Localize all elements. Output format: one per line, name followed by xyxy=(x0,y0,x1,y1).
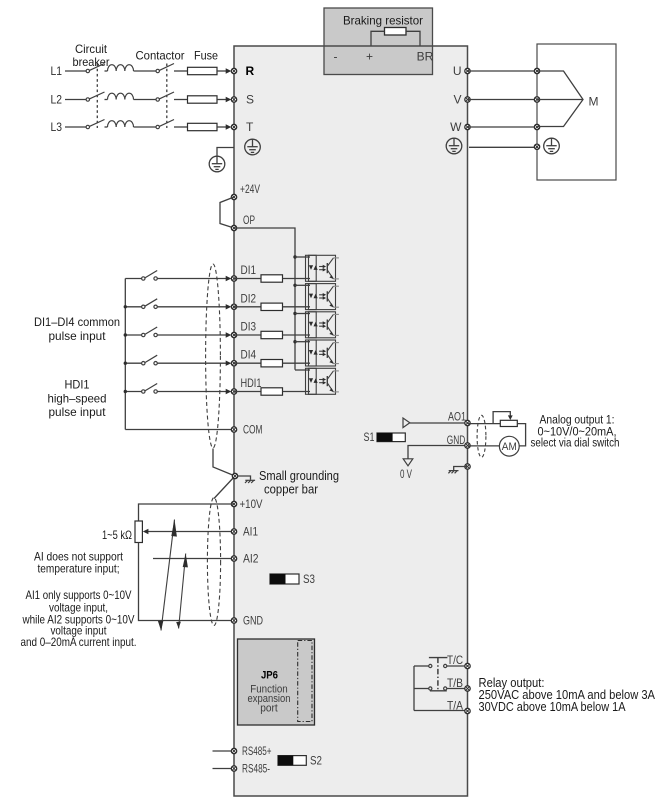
wire fuse to terminal S xyxy=(217,99,226,101)
svg-text:DI4: DI4 xyxy=(241,348,257,362)
protective earth symbol inside inverter left xyxy=(245,139,261,155)
contactor coil L3 xyxy=(108,121,134,127)
contactor contact L1 xyxy=(156,64,174,73)
terminal RS485- xyxy=(231,766,236,771)
terminal COM xyxy=(231,427,236,432)
shield ellipse digital inputs xyxy=(206,264,221,448)
svg-text:L2: L2 xyxy=(51,93,63,107)
svg-text:30VDC above 10mA below 1A: 30VDC above 10mA below 1A xyxy=(479,700,627,714)
switch HDI1 xyxy=(142,384,158,394)
wire terminal DI4 to resistor xyxy=(234,362,261,364)
protective earth symbol motor xyxy=(544,138,560,154)
wire resistor DI4 to optocoupler xyxy=(283,362,311,364)
junction dot OP rail DI1 xyxy=(293,255,296,258)
wire potentiometer to meter xyxy=(517,424,525,446)
wire braking resistor to BR terminal xyxy=(406,31,420,45)
wire inverter to motor earth xyxy=(469,146,537,148)
terminal R xyxy=(231,68,236,73)
svg-text:DI1: DI1 xyxy=(241,263,257,277)
terminal chassis output xyxy=(465,464,470,469)
svg-text:AI1: AI1 xyxy=(243,525,258,539)
wire relay T/B left xyxy=(414,688,429,690)
svg-text:T/A: T/A xyxy=(447,698,463,712)
arrowhead into terminal DI4 xyxy=(226,361,232,366)
wire RS485+ stub xyxy=(213,750,235,752)
optocoupler DI3 xyxy=(306,312,339,338)
wire OP rail to optocoupler DI3 xyxy=(295,313,310,315)
wire switch DI1 to terminal xyxy=(157,278,226,280)
wire DI shield drain xyxy=(213,449,235,477)
wire fuse to terminal R xyxy=(217,70,226,72)
0V reference symbol xyxy=(403,459,413,466)
resistor DI4 xyxy=(261,360,283,367)
svg-text:W: W xyxy=(450,120,462,134)
wire V to motor xyxy=(468,99,538,101)
wire COM bus horizontal xyxy=(125,429,234,431)
wire inverter edge to input PE earth xyxy=(217,148,234,157)
contactor coil L1 xyxy=(108,65,134,71)
svg-text:AO1: AO1 xyxy=(448,410,466,424)
wire U to motor xyxy=(468,70,538,72)
wire resistor DI3 to optocoupler xyxy=(283,334,311,336)
junction dot bus DI3 xyxy=(124,333,127,336)
arrowhead into terminal DI3 xyxy=(226,332,232,337)
motor winding chevron xyxy=(537,71,583,127)
terminal W xyxy=(465,124,470,129)
svg-text:R: R xyxy=(246,64,255,78)
terminal +10V xyxy=(231,501,236,506)
svg-text:1~5 kΩ: 1~5 kΩ xyxy=(102,528,132,542)
wire RS485- stub xyxy=(213,768,235,770)
wire L3 to circuit breaker xyxy=(65,126,86,128)
wire resistor DI2 to optocoupler xyxy=(283,306,311,308)
wire switch DI3 to terminal xyxy=(157,334,226,336)
motor terminal W xyxy=(534,124,539,129)
braking resistor BR1 xyxy=(385,28,407,36)
junction dot OP rail DI4 xyxy=(293,340,296,343)
expansion port JP6 inner connector xyxy=(298,641,312,722)
svg-text:HDI1: HDI1 xyxy=(241,376,262,390)
terminal GND output xyxy=(465,443,470,448)
wire switch common bus vertical xyxy=(124,279,126,430)
svg-text:AM: AM xyxy=(502,441,517,453)
terminal S xyxy=(231,97,236,102)
protective earth symbol input side xyxy=(209,156,225,172)
svg-text:Braking resistor: Braking resistor xyxy=(343,14,423,28)
wire switch DI4 to terminal xyxy=(157,362,226,364)
wire braking resistor to + terminal xyxy=(371,31,385,45)
wire motor V phase xyxy=(537,99,583,101)
svg-text:high–speed: high–speed xyxy=(48,391,107,405)
svg-text:V: V xyxy=(453,93,461,107)
terminal DI4 xyxy=(231,361,236,366)
junction dot bus DI2 xyxy=(124,305,127,308)
terminal AO1 xyxy=(465,420,470,425)
wire switch DI2 to terminal xyxy=(157,306,226,308)
wire L2 to circuit breaker xyxy=(65,99,86,101)
wire bus to switch DI1 xyxy=(125,278,141,280)
twisted pair arrow AI2 xyxy=(176,554,188,629)
svg-text:S1: S1 xyxy=(364,430,375,444)
wire chassis terminal to symbol xyxy=(454,467,468,471)
arrowhead into terminal S xyxy=(226,97,232,102)
switch DI1 xyxy=(142,271,158,281)
fuse F2 xyxy=(188,96,218,103)
contactor coil L2 xyxy=(108,93,134,99)
svg-text:DI1–DI4 common: DI1–DI4 common xyxy=(34,315,120,329)
terminal AI2 xyxy=(231,556,236,561)
terminal GND analog xyxy=(231,618,236,623)
svg-text:S2: S2 xyxy=(310,754,322,768)
wire bus to switch DI4 xyxy=(125,362,141,364)
switch DI3 xyxy=(142,327,158,337)
wire bus to switch HDI1 xyxy=(125,391,141,393)
svg-text:GND: GND xyxy=(243,614,263,628)
svg-text:and 0–20mA current input.: and 0–20mA current input. xyxy=(21,635,137,649)
optocoupler DI1 xyxy=(306,255,339,281)
wire relay T/C left xyxy=(414,665,429,667)
wire OP rail to optocoupler DI1 xyxy=(295,256,310,258)
optocoupler DI2 xyxy=(306,284,339,310)
wire OP rail to optocoupler HDI1 xyxy=(295,369,310,371)
resistor DI3 xyxy=(261,331,283,338)
svg-text:Fuse: Fuse xyxy=(194,49,218,63)
chassis ground symbol grounding bar xyxy=(245,480,255,483)
svg-text:L3: L3 xyxy=(51,120,63,134)
svg-text:temperature input;: temperature input; xyxy=(38,562,120,576)
motor box xyxy=(537,44,616,180)
relay contact T/C xyxy=(429,658,448,668)
wire potentiometer loop xyxy=(493,412,510,424)
svg-text:S: S xyxy=(246,93,254,107)
terminal RS485+ xyxy=(231,748,236,753)
fuse F3 xyxy=(188,123,218,130)
svg-text:M: M xyxy=(589,95,599,109)
inverter main unit body xyxy=(234,46,468,796)
arrowhead into terminal DI1 xyxy=(226,276,232,281)
motor terminal V xyxy=(534,97,539,102)
terminal HDI1 xyxy=(231,389,236,394)
contactor contact L3 xyxy=(156,120,174,129)
motor terminal earth xyxy=(534,144,539,149)
wire potentiometer bottom to GND xyxy=(139,543,235,621)
inverter top edge across braking box xyxy=(324,45,433,47)
wire contact to fuse L3 xyxy=(174,126,188,128)
wire OP rail to optocoupler DI4 xyxy=(295,341,310,343)
svg-text:Small grounding: Small grounding xyxy=(259,469,339,483)
svg-text:S3: S3 xyxy=(303,572,315,586)
wire OP rail to optocoupler DI2 xyxy=(295,284,310,286)
svg-text:OP: OP xyxy=(243,213,255,227)
wire terminal HDI1 to resistor xyxy=(234,391,261,393)
terminal V xyxy=(465,97,470,102)
junction dot bus DI4 xyxy=(124,362,127,365)
wire coil to contactor contact L1 xyxy=(134,70,157,72)
wire terminal DI1 to resistor xyxy=(234,278,261,280)
switch DI4 xyxy=(142,355,158,365)
arrowhead potentiometer wiper xyxy=(143,529,149,534)
resistor HDI1 xyxy=(261,388,283,395)
terminal U xyxy=(465,68,470,73)
wire relay T/A xyxy=(414,710,468,712)
terminal T/A xyxy=(465,708,470,713)
braking resistor box xyxy=(324,8,433,75)
expansion port JP6 box xyxy=(238,639,315,725)
svg-text:port: port xyxy=(260,702,278,714)
terminal small grounding bar xyxy=(232,473,237,478)
svg-text:pulse input: pulse input xyxy=(49,329,107,343)
switch DI2 xyxy=(142,299,158,309)
junction dot OP rail DI3 xyxy=(293,312,296,315)
wire breaker to contactor coil L2 xyxy=(105,99,108,101)
wire fuse to terminal T xyxy=(217,126,226,128)
wire GND to meter xyxy=(468,445,500,447)
circuit breaker pole L3 xyxy=(86,120,104,129)
external potentiometer xyxy=(500,420,517,426)
terminal +24V xyxy=(231,194,236,199)
svg-text:T/C: T/C xyxy=(447,653,463,667)
wire relay left bus xyxy=(413,666,415,711)
wire L1 to circuit breaker xyxy=(65,70,86,72)
svg-text:JP6: JP6 xyxy=(261,670,278,682)
terminal OP xyxy=(231,225,236,230)
svg-text:copper bar: copper bar xyxy=(264,482,318,496)
arrowhead potentiometer loop xyxy=(508,415,513,420)
wire breaker to contactor coil L1 xyxy=(105,70,108,72)
circuit breaker pole L1 xyxy=(86,64,104,73)
wire relay T/B right xyxy=(447,688,468,690)
dial switch S1 xyxy=(377,433,405,442)
svg-text:AI2: AI2 xyxy=(243,552,259,566)
arrowhead into terminal R xyxy=(226,68,232,73)
shield ellipse analog output xyxy=(477,415,486,457)
svg-text:U: U xyxy=(453,64,462,78)
mechanical linkage circuit breaker xyxy=(96,64,98,129)
buffer amplifier AO1 xyxy=(403,418,410,428)
terminal T/C xyxy=(465,663,470,668)
wire resistor DI1 to optocoupler xyxy=(283,278,311,280)
wire AI2 stub xyxy=(153,558,234,560)
wire GND to 0V xyxy=(408,446,468,459)
svg-text:+10V: +10V xyxy=(240,497,263,511)
optocoupler HDI1 xyxy=(306,368,339,394)
resistor DI1 xyxy=(261,275,283,282)
wire grounding bar to chassis symbol xyxy=(238,476,251,480)
terminal AI1 xyxy=(231,529,236,534)
svg-text:DI2: DI2 xyxy=(241,291,257,305)
dial switch S3 xyxy=(270,574,299,584)
wire coil to contactor contact L3 xyxy=(134,126,157,128)
svg-text:+24V: +24V xyxy=(240,182,260,196)
svg-text:+: + xyxy=(366,50,373,64)
dial switch S2 xyxy=(278,756,306,766)
junction dot bus HDI1 xyxy=(124,390,127,393)
wire breaker to contactor coil L3 xyxy=(105,126,108,128)
relay contact T/B xyxy=(429,687,447,691)
svg-text:breaker: breaker xyxy=(73,55,110,69)
wire relay T/C right xyxy=(447,665,468,667)
potentiometer RP1 1-5k xyxy=(135,521,142,543)
junction dot OP rail DI2 xyxy=(293,284,296,287)
wire coil to contactor contact L2 xyxy=(134,99,157,101)
wire W to motor xyxy=(468,126,538,128)
svg-text:BR: BR xyxy=(417,50,434,64)
svg-text:RS485-: RS485- xyxy=(242,762,270,776)
arrowhead into terminal HDI1 xyxy=(226,389,232,394)
wire AO1 to external potentiometer xyxy=(468,423,501,425)
svg-text:L1: L1 xyxy=(51,64,63,78)
chassis ground symbol output xyxy=(448,471,458,474)
shield ellipse analog inputs xyxy=(207,498,220,626)
wire contact to fuse L1 xyxy=(174,70,188,72)
svg-text:0 V: 0 V xyxy=(400,467,412,481)
contactor contact L2 xyxy=(156,92,174,101)
fuse F1 xyxy=(188,67,218,74)
svg-text:Contactor: Contactor xyxy=(136,49,185,63)
terminal DI1 xyxy=(231,276,236,281)
terminal T xyxy=(231,124,236,129)
wire contact to fuse L2 xyxy=(174,99,188,101)
terminal DI3 xyxy=(231,332,236,337)
motor terminal U xyxy=(534,68,539,73)
wire AI1 to potentiometer wiper xyxy=(148,531,235,533)
terminal T/B xyxy=(465,686,470,691)
wire AI shield drain xyxy=(214,476,235,499)
svg-text:DI3: DI3 xyxy=(241,320,257,334)
svg-text:T: T xyxy=(246,120,254,134)
optocoupler DI4 xyxy=(306,340,339,366)
svg-text:RS485+: RS485+ xyxy=(242,744,272,758)
circuit breaker pole L2 xyxy=(86,92,104,101)
svg-text:T/B: T/B xyxy=(447,676,463,690)
wire OP to optocoupler supply rail xyxy=(234,228,295,370)
protective earth symbol inside inverter right xyxy=(446,138,462,154)
wire buffer to AO1 xyxy=(410,422,468,424)
svg-text:Circuit: Circuit xyxy=(75,42,108,56)
wire resistor HDI1 to optocoupler xyxy=(283,391,311,393)
wire +10V to potentiometer xyxy=(139,504,235,521)
wire terminal DI3 to resistor xyxy=(234,334,261,336)
svg-text:HDI1: HDI1 xyxy=(65,378,90,392)
svg-text:COM: COM xyxy=(243,423,263,437)
arrowhead into terminal DI2 xyxy=(226,304,232,309)
terminal DI2 xyxy=(231,304,236,309)
twisted pair arrow AI1 xyxy=(158,520,177,631)
wire jumper +24V to OP xyxy=(220,197,234,228)
svg-text:pulse input: pulse input xyxy=(49,405,107,419)
wire switch HDI1 to terminal xyxy=(157,391,226,393)
svg-text:-: - xyxy=(334,50,338,64)
resistor DI2 xyxy=(261,303,283,310)
relay actuator linkage xyxy=(437,658,439,691)
wire bus to switch DI3 xyxy=(125,334,141,336)
svg-text:select via dial switch: select via dial switch xyxy=(531,436,620,450)
wire bus to switch DI2 xyxy=(125,306,141,308)
arrowhead into terminal T xyxy=(226,124,232,129)
meter AM xyxy=(499,436,519,456)
svg-text:GND: GND xyxy=(447,433,466,447)
wire terminal DI2 to resistor xyxy=(234,306,261,308)
mechanical linkage contactor xyxy=(166,64,168,129)
